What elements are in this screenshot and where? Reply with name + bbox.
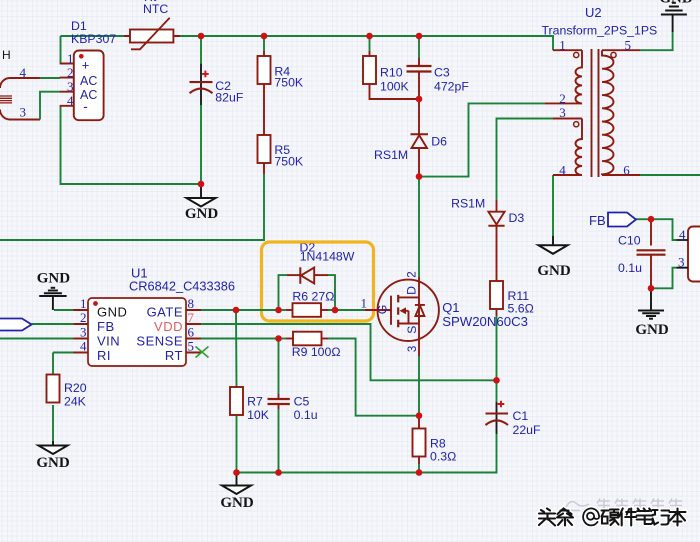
resistor R8 bbox=[413, 429, 426, 457]
wire rail to C2 top bbox=[200, 36, 202, 64]
svg-text:GND: GND bbox=[635, 322, 669, 338]
svg-text:8: 8 bbox=[188, 296, 195, 311]
wire SENSE node down to C5 bbox=[278, 339, 280, 395]
ground (top right) bbox=[661, 3, 687, 15]
pin R8 bottom bbox=[418, 457, 420, 465]
svg-text:KBP307: KBP307 bbox=[71, 32, 116, 46]
wire U1 VDD to C1/R11 node bbox=[201, 324, 497, 380]
pin R9 left bbox=[286, 338, 293, 340]
svg-text:GND: GND bbox=[36, 455, 70, 471]
svg-text:0.1u: 0.1u bbox=[618, 261, 642, 275]
stem GND bottom rail bbox=[236, 473, 238, 486]
svg-text:750K: 750K bbox=[274, 76, 304, 90]
junction GATE/R7 bbox=[233, 307, 240, 314]
wire choke top lead bbox=[10, 77, 40, 79]
svg-text:3: 3 bbox=[678, 255, 685, 270]
svg-text:0.1u: 0.1u bbox=[294, 408, 318, 422]
svg-text:NTC: NTC bbox=[143, 2, 168, 16]
junction bottom rail/C5 bbox=[275, 469, 282, 476]
stem GND below R20 bbox=[52, 441, 54, 446]
pin Q1 drain bbox=[418, 277, 420, 297]
transformer U2 core bbox=[592, 49, 599, 177]
svg-text:24K: 24K bbox=[64, 395, 87, 409]
no-connect X on U1 pin 5 bbox=[196, 347, 209, 358]
svg-text:C3: C3 bbox=[434, 66, 450, 80]
op-amp U1 CR6842 body bbox=[88, 298, 186, 366]
wire GATE node down to R7 bbox=[235, 310, 238, 387]
pin R6 left bbox=[286, 309, 293, 311]
pin R4 top bbox=[263, 51, 265, 56]
svg-text:D: D bbox=[405, 286, 419, 295]
svg-text:1N4148W: 1N4148W bbox=[300, 250, 355, 264]
watermark ghost bbox=[566, 499, 682, 513]
svg-text:R8: R8 bbox=[430, 437, 446, 451]
transformer U2 primary winding (bottom) bbox=[576, 119, 582, 176]
svg-text:-: - bbox=[83, 98, 88, 114]
svg-text:1: 1 bbox=[361, 296, 368, 311]
net label FB flag bbox=[608, 213, 636, 227]
svg-text:3: 3 bbox=[407, 346, 419, 352]
wire C5 to bottom rail bbox=[278, 409, 280, 473]
capacitor C3 bbox=[407, 66, 432, 72]
svg-text:4: 4 bbox=[67, 93, 74, 108]
svg-text:4: 4 bbox=[679, 227, 686, 242]
junction rail/C2 bbox=[198, 33, 205, 40]
wire bridge pin1 to HV rail bbox=[60, 36, 62, 64]
optocoupler U3 (clipped at right edge) bbox=[688, 227, 700, 282]
stem GND above U1 bbox=[52, 296, 54, 310]
junction drain node bbox=[416, 173, 423, 180]
transformer U2 secondary pin stubs bbox=[602, 50, 640, 175]
svg-text:+: + bbox=[82, 58, 90, 73]
Q1 body-diode arrow bbox=[400, 307, 407, 314]
D1 pin stubs bbox=[60, 64, 74, 106]
svg-text:3: 3 bbox=[559, 105, 566, 120]
wire C10 bottom to opto pin3 bbox=[651, 268, 677, 289]
wire R6 to Q1 gate bbox=[328, 309, 365, 311]
D1 pin-1 dot bbox=[79, 54, 84, 59]
pin R5 bottom bbox=[263, 163, 265, 174]
pin C10 bottom bbox=[650, 255, 652, 288]
svg-text:RS1M: RS1M bbox=[451, 197, 485, 211]
ground (transformer pin4) bbox=[539, 245, 568, 254]
wire GND to U1 pin1 bbox=[54, 309, 74, 311]
svg-text:750K: 750K bbox=[274, 155, 304, 169]
svg-text:FB: FB bbox=[589, 213, 606, 228]
pin C3 bottom bbox=[418, 72, 420, 100]
svg-text:R20: R20 bbox=[64, 381, 87, 395]
transformer U2 primary pin stubs bbox=[545, 50, 582, 175]
svg-text:3: 3 bbox=[67, 79, 74, 94]
resistor R4 bbox=[258, 56, 271, 84]
resistor R7 bbox=[230, 387, 243, 415]
wire FB flag to node bbox=[636, 218, 651, 220]
capacitor C10 bbox=[637, 250, 666, 254]
svg-text:H: H bbox=[2, 48, 11, 62]
svg-text:1: 1 bbox=[67, 51, 74, 66]
svg-text:5: 5 bbox=[188, 339, 195, 354]
pin D2 anode bbox=[314, 274, 328, 276]
svg-text:4: 4 bbox=[20, 65, 27, 80]
wire drain node down to Q1 bbox=[418, 177, 420, 277]
svg-text:2: 2 bbox=[80, 310, 87, 325]
wire R11 to VDD node bbox=[496, 316, 498, 380]
svg-text:RS1M: RS1M bbox=[374, 148, 408, 162]
wire U1 SENSE to R9 bbox=[201, 338, 279, 340]
stem GND pin4 bbox=[552, 236, 554, 245]
svg-text:2: 2 bbox=[67, 65, 74, 80]
wire rail to R4 bbox=[263, 36, 265, 51]
svg-text:10K: 10K bbox=[247, 408, 270, 422]
bridge rectifier D1 body bbox=[74, 51, 104, 121]
svg-text:GND: GND bbox=[659, 0, 693, 7]
ground (below C2) bbox=[187, 198, 216, 207]
U1 pin-1 dot bbox=[93, 301, 98, 306]
wire Q1 source to node bbox=[418, 356, 420, 416]
wire transformer pin4 to GND bbox=[552, 175, 554, 236]
pin R10 top bbox=[369, 51, 371, 56]
highlight box around D2/R6 bbox=[262, 242, 374, 321]
wire R20 to GND bbox=[52, 405, 54, 441]
wire R6 left bbox=[279, 309, 287, 311]
wire HV rail to transformer pin1 bbox=[180, 36, 553, 50]
svg-text:2: 2 bbox=[559, 91, 566, 106]
svg-text:2: 2 bbox=[407, 271, 419, 277]
svg-text:GND: GND bbox=[220, 495, 254, 511]
svg-text:GATE: GATE bbox=[147, 305, 183, 320]
U1 pin stubs bbox=[74, 310, 202, 353]
wire R6 left node up to D2 bbox=[279, 275, 288, 310]
pin D6 cathode bbox=[418, 99, 420, 134]
transistor Q1 SPW20N60C3 bbox=[378, 280, 439, 341]
capacitor C5 bbox=[268, 399, 290, 404]
diode D2 1N4148W bbox=[299, 267, 301, 284]
ground (below R20) bbox=[39, 446, 68, 455]
junction VDD/C1 bbox=[493, 377, 500, 384]
wire rail to C3 bbox=[418, 36, 420, 58]
junction C2/GND rail bbox=[198, 181, 205, 188]
pin D6 anode bbox=[418, 148, 420, 177]
junction D2/R6 right bbox=[332, 307, 339, 314]
pin C5 top bbox=[278, 394, 280, 399]
pin D3 anode bbox=[496, 200, 498, 212]
wire VDD node to C1 bbox=[496, 380, 498, 402]
svg-text:CR6842_C433386: CR6842_C433386 bbox=[129, 279, 235, 294]
diode D6 (RS1M) bbox=[411, 133, 429, 135]
svg-text:AC: AC bbox=[80, 74, 97, 88]
svg-text:VIN: VIN bbox=[97, 334, 120, 349]
wire R7 to bottom rail bbox=[236, 416, 238, 473]
svg-text:7: 7 bbox=[188, 310, 195, 325]
svg-text:D3: D3 bbox=[509, 211, 525, 225]
wire U1 pin4 RI bbox=[53, 352, 74, 354]
svg-text:Transform_2PS_1PS: Transform_2PS_1PS bbox=[542, 24, 658, 38]
svg-text:GND: GND bbox=[185, 206, 219, 222]
svg-text:GND: GND bbox=[537, 263, 571, 279]
wire left edge to U1 pin3 VIN bbox=[0, 338, 74, 340]
svg-text:100K: 100K bbox=[380, 80, 410, 94]
junction rail/R10 bbox=[366, 33, 373, 40]
pin C10 top bbox=[650, 219, 652, 245]
wire HV rail left segment bbox=[61, 35, 125, 37]
svg-text:82uF: 82uF bbox=[215, 91, 244, 105]
pin R10 bottom to node bbox=[370, 84, 420, 99]
junction Q1 source/R8 bbox=[416, 412, 423, 419]
capacitor C1 (polarized) bbox=[496, 402, 498, 434]
svg-text:C5: C5 bbox=[294, 395, 310, 409]
watermark text (stylized) bbox=[539, 508, 686, 525]
junction R10/C3 bbox=[416, 96, 423, 103]
wire FB node to opto pin4 bbox=[651, 219, 677, 240]
junction rail/R4 bbox=[261, 33, 268, 40]
resistor R20 bbox=[47, 375, 60, 403]
ground (bottom rail) bbox=[222, 486, 251, 495]
wire choke to bridge pin3 bbox=[40, 92, 60, 120]
wire R8 to bottom rail bbox=[418, 464, 420, 473]
svg-text:U2: U2 bbox=[585, 5, 602, 20]
wire R9 to source node bbox=[328, 339, 419, 416]
net label flag (left edge, clipped) bbox=[0, 319, 32, 331]
pin R8 top bbox=[418, 416, 420, 429]
transformer U2 polarity dots bbox=[574, 52, 579, 57]
ground (below C10) bbox=[638, 311, 664, 319]
pin D2 cathode bbox=[287, 274, 300, 276]
pin Q1 gate bbox=[365, 309, 391, 311]
transformer U2 primary winding (top) bbox=[576, 50, 582, 103]
svg-text:3: 3 bbox=[20, 105, 27, 120]
svg-text:D1: D1 bbox=[71, 19, 87, 33]
stem GND below C10 bbox=[650, 288, 652, 309]
wire transformer pin6 to right edge bbox=[640, 174, 700, 176]
svg-text:472pF: 472pF bbox=[434, 80, 469, 94]
stem GND top-right bbox=[672, 15, 674, 32]
U3 pin stubs bbox=[677, 240, 689, 268]
ground (above U1) bbox=[39, 288, 66, 296]
svg-text:4: 4 bbox=[80, 339, 87, 354]
pin R9 right bbox=[322, 338, 329, 340]
wire drain node to transformer pin2 bbox=[419, 103, 545, 176]
pin R4-R5 link bbox=[263, 84, 265, 135]
wire rail to R10 bbox=[369, 36, 371, 51]
svg-text:R9 100Ω: R9 100Ω bbox=[292, 345, 341, 359]
svg-text:6: 6 bbox=[188, 325, 195, 340]
resistor R6 bbox=[293, 303, 322, 317]
diode D3 (RS1M) bbox=[488, 212, 504, 225]
svg-text:5: 5 bbox=[625, 38, 632, 53]
wire C2 bottom to GND rail bbox=[200, 105, 202, 184]
resistor R9 bbox=[293, 332, 322, 346]
pin C3 top bbox=[418, 58, 420, 66]
wire bridge pin4 to GND rail bbox=[61, 106, 202, 184]
svg-text:0.3Ω: 0.3Ω bbox=[430, 450, 456, 464]
svg-text:RT: RT bbox=[165, 348, 183, 363]
wire C1 to bottom rail bbox=[419, 434, 497, 473]
wire R9 left bbox=[279, 338, 287, 340]
junction FB/C10 bbox=[648, 216, 655, 223]
junction C10/GND bbox=[648, 285, 655, 292]
wire R5 bottom to left edge bbox=[0, 174, 264, 240]
svg-text:GND: GND bbox=[37, 271, 71, 287]
svg-text:SENSE: SENSE bbox=[136, 334, 183, 349]
svg-text:R6 27Ω: R6 27Ω bbox=[292, 290, 334, 304]
wire transformer pin3 to D3 bbox=[497, 119, 554, 201]
svg-text:1: 1 bbox=[80, 296, 87, 311]
svg-text:C1: C1 bbox=[513, 409, 529, 423]
svg-text:R10: R10 bbox=[380, 66, 403, 80]
svg-text:4: 4 bbox=[559, 163, 566, 178]
svg-text:S: S bbox=[405, 326, 419, 334]
svg-text:D6: D6 bbox=[431, 135, 447, 149]
junction bottom rail/R8 bbox=[416, 469, 423, 476]
stem GND below C2 bbox=[200, 184, 202, 198]
wire choke bottom lead bbox=[10, 119, 40, 121]
wire U1 GATE to R6 node bbox=[201, 309, 279, 311]
junction bottom rail/GND bbox=[233, 469, 240, 476]
wire choke to bridge pin2 bbox=[40, 77, 60, 79]
pin C5 bottom bbox=[278, 404, 280, 409]
svg-text:G: G bbox=[376, 305, 390, 315]
wire D2 anode down to R6 right node bbox=[328, 275, 335, 310]
capacitor C2 (polarized) bbox=[200, 64, 202, 105]
inductor (common-mode choke, clipped at left edge) bbox=[0, 78, 10, 120]
junction D2/R6 left bbox=[275, 307, 282, 314]
resistor R5 bbox=[258, 135, 271, 163]
wire transformer pin5 to GND bbox=[640, 32, 673, 50]
wire RI to R20 bbox=[52, 353, 54, 375]
transformer U2 secondary winding bbox=[602, 50, 614, 175]
svg-text:1: 1 bbox=[559, 38, 566, 53]
resistor R11 bbox=[490, 281, 503, 309]
svg-text:GND: GND bbox=[97, 305, 127, 320]
junction SENSE/C5 bbox=[275, 335, 282, 342]
svg-text:VDD: VDD bbox=[154, 319, 183, 334]
svg-text:FB: FB bbox=[97, 319, 115, 334]
wire net flag to U1 pin2 FB bbox=[32, 323, 74, 325]
pin R6 right bbox=[322, 309, 329, 311]
svg-text:C10: C10 bbox=[618, 234, 641, 248]
wire bottom GND rail bbox=[237, 472, 420, 474]
svg-text:R7: R7 bbox=[247, 395, 263, 409]
svg-text:Q1: Q1 bbox=[442, 300, 459, 315]
thermistor Rt NTC bbox=[124, 35, 180, 37]
junction rail/C3 bbox=[416, 33, 423, 40]
pin Q1 source bbox=[418, 324, 420, 357]
svg-text:6: 6 bbox=[623, 163, 630, 178]
resistor R10 bbox=[363, 56, 376, 84]
svg-text:RI: RI bbox=[97, 348, 111, 363]
svg-text:3: 3 bbox=[80, 325, 87, 340]
pin D3 cathode to R11 bbox=[496, 226, 498, 281]
svg-text:22uF: 22uF bbox=[513, 423, 542, 437]
pin R11 bottom bbox=[496, 309, 498, 316]
svg-text:SPW20N60C3: SPW20N60C3 bbox=[442, 314, 528, 329]
